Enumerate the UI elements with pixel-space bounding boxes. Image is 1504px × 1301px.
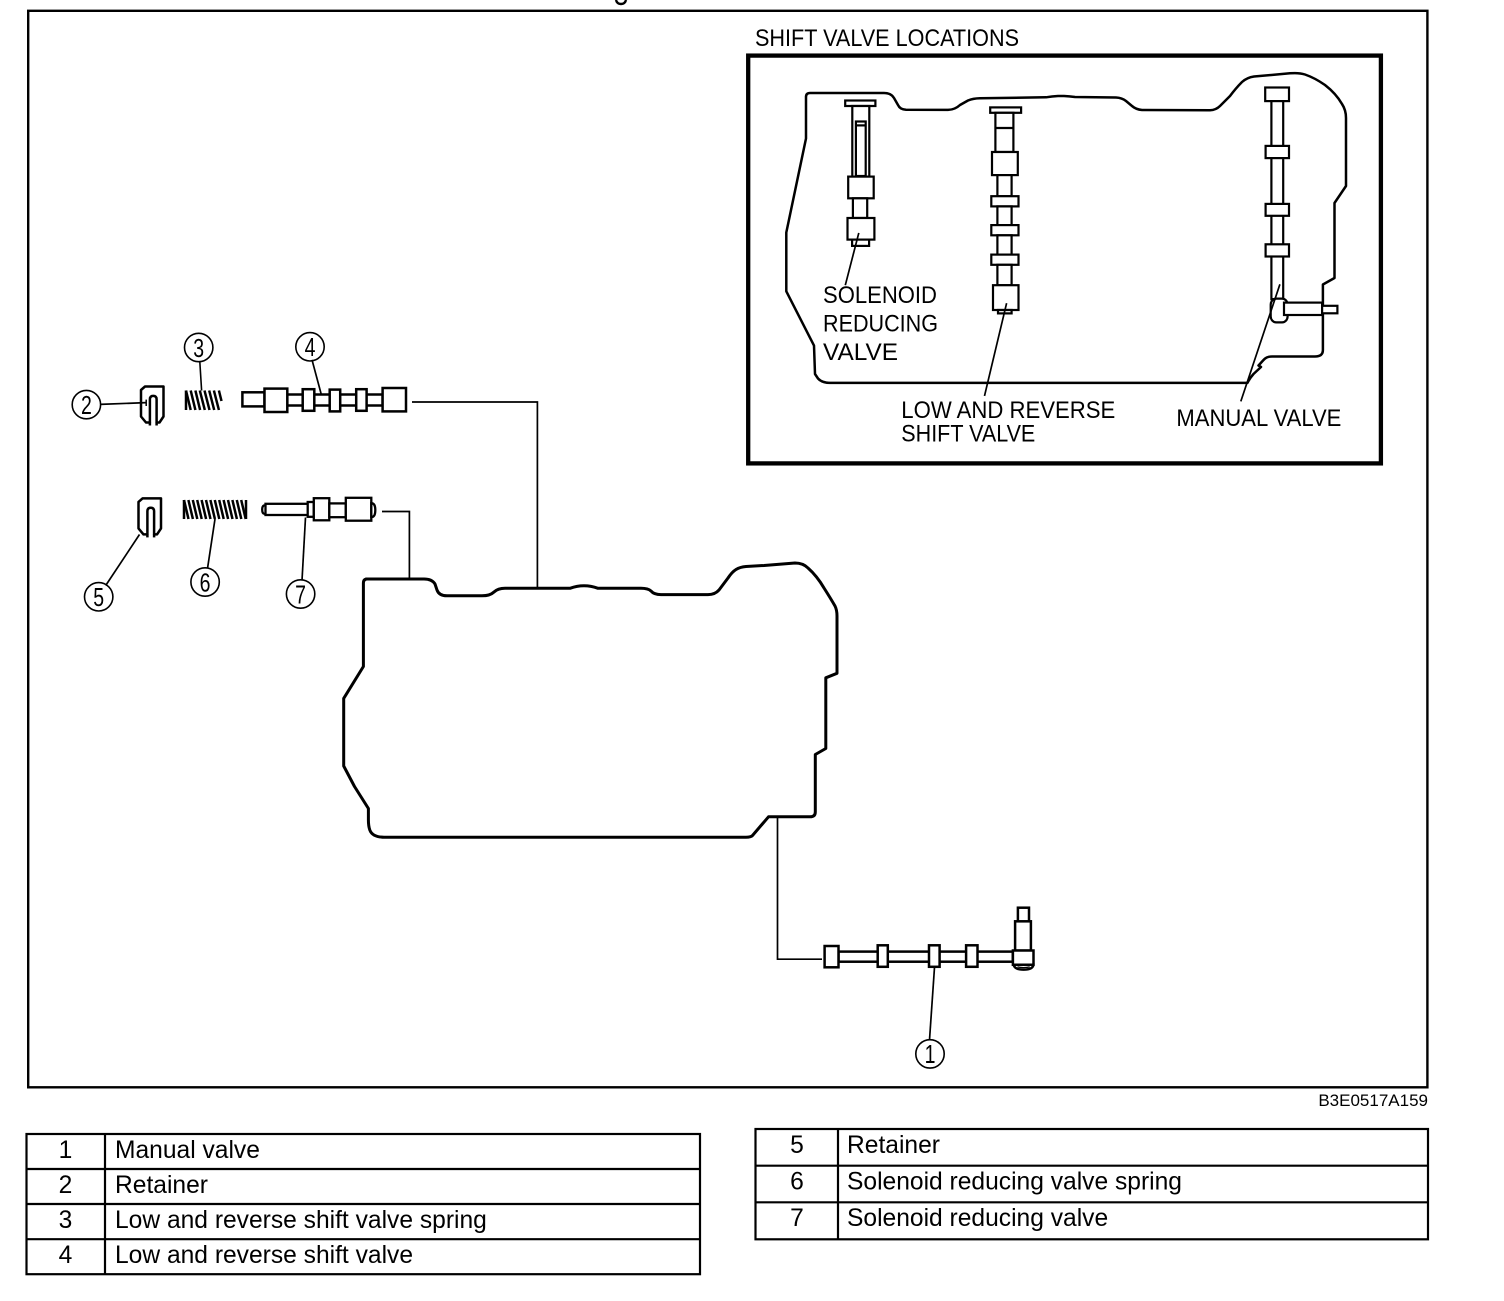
wire from valve 7 to valve body xyxy=(382,512,409,581)
left legend table xyxy=(27,1134,701,1274)
svg-text:4: 4 xyxy=(59,1242,73,1269)
callout circle 4 xyxy=(296,333,324,361)
svg-text:6: 6 xyxy=(200,568,211,597)
svg-text:7: 7 xyxy=(790,1205,804,1232)
leader 2 xyxy=(100,403,146,405)
svg-text:VALVE: VALVE xyxy=(823,339,898,366)
callout circle 5 xyxy=(85,583,113,611)
wire from valve 4 to valve body xyxy=(412,402,537,588)
low and reverse shift valve (inner box) xyxy=(990,107,1021,313)
leader 7 xyxy=(302,518,306,581)
leader 3 xyxy=(200,362,202,391)
callout circle 6 xyxy=(191,568,219,596)
svg-text:SHIFT VALVE: SHIFT VALVE xyxy=(901,421,1035,448)
svg-text:SOLENOID: SOLENOID xyxy=(823,282,937,309)
callout circle 3 xyxy=(185,333,213,361)
svg-text:Manual valve: Manual valve xyxy=(115,1137,260,1164)
svg-text:1: 1 xyxy=(925,1039,936,1068)
callout circle 2 xyxy=(72,390,100,418)
leader low and reverse shift valve label xyxy=(985,303,1007,396)
svg-text:4: 4 xyxy=(305,332,316,361)
spring 6 (solenoid reducing valve spring) xyxy=(184,500,246,519)
svg-text:1: 1 xyxy=(59,1137,73,1164)
outer frame xyxy=(28,11,1427,1088)
svg-text:2: 2 xyxy=(59,1172,73,1199)
central valve body outline xyxy=(344,563,837,837)
spring 3 (low and reverse shift valve spring) xyxy=(186,391,222,411)
leader solenoid reducing valve label xyxy=(845,233,859,285)
svg-text:3: 3 xyxy=(59,1207,73,1234)
svg-text:7: 7 xyxy=(295,580,306,609)
retainer 5 xyxy=(139,498,162,534)
callout circle 1 xyxy=(916,1040,944,1068)
callout circle 7 xyxy=(286,580,314,608)
svg-text:MANUAL VALVE: MANUAL VALVE xyxy=(1176,405,1341,432)
leader 6 xyxy=(208,519,216,569)
leader 5 xyxy=(106,535,140,586)
svg-text:Low and reverse shift valve sp: Low and reverse shift valve spring xyxy=(115,1207,487,1234)
svg-text:6: 6 xyxy=(790,1169,804,1196)
manual valve (inner box) xyxy=(1265,88,1337,323)
svg-text:2: 2 xyxy=(81,390,92,419)
svg-text:5: 5 xyxy=(790,1132,804,1159)
svg-text:REDUCING: REDUCING xyxy=(823,311,938,338)
cut-off glyph fragment top center xyxy=(616,0,626,4)
svg-text:B3E0517A159: B3E0517A159 xyxy=(1318,1091,1428,1110)
leader manual valve label xyxy=(1241,284,1280,401)
solenoid reducing valve (inner box) xyxy=(845,101,875,246)
svg-text:Solenoid reducing valve spring: Solenoid reducing valve spring xyxy=(847,1169,1182,1196)
leader 4 xyxy=(312,360,323,399)
leader 1 xyxy=(930,967,935,1040)
svg-text:Retainer: Retainer xyxy=(115,1172,208,1199)
inner box SHIFT VALVE LOCATIONS xyxy=(748,56,1381,464)
wire from valve body to manual valve 1 xyxy=(778,818,823,959)
svg-text:Retainer: Retainer xyxy=(847,1132,940,1159)
manual valve 1 (exploded, bottom right) xyxy=(825,908,1034,970)
svg-text:Low and reverse shift valve: Low and reverse shift valve xyxy=(115,1242,413,1269)
svg-text:Solenoid reducing valve: Solenoid reducing valve xyxy=(847,1205,1108,1232)
retainer 2 xyxy=(141,387,164,423)
right legend table xyxy=(756,1129,1429,1239)
low and reverse shift valve 4 xyxy=(242,388,406,412)
svg-text:3: 3 xyxy=(193,333,204,362)
svg-text:SHIFT VALVE LOCATIONS: SHIFT VALVE LOCATIONS xyxy=(755,25,1019,52)
svg-text:5: 5 xyxy=(93,582,104,611)
solenoid reducing valve 7 xyxy=(262,498,375,521)
inner valve body outline xyxy=(786,73,1346,383)
